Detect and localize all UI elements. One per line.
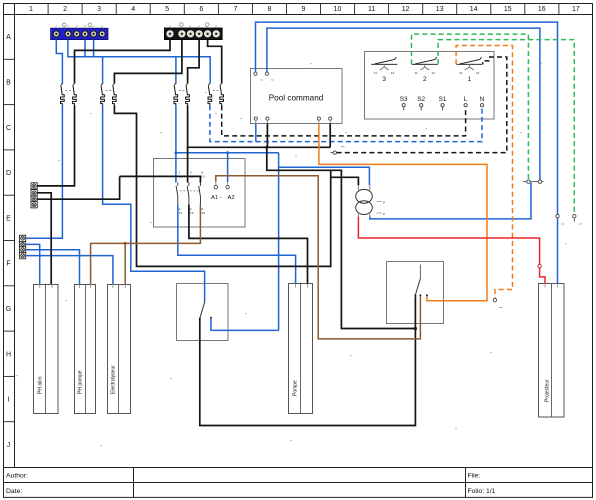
svg-text:T2: T2 xyxy=(190,211,194,215)
svg-text:14: 14 xyxy=(476,71,480,75)
svg-text:4: 4 xyxy=(131,6,135,13)
svg-text:17: 17 xyxy=(572,6,580,13)
wire net X from node to relay K2 (black) xyxy=(267,147,416,328)
svg-text:H: H xyxy=(6,351,11,358)
svg-text:J: J xyxy=(7,442,11,449)
wire branch to transformer primary left (black) xyxy=(331,177,359,185)
row letters xyxy=(3,59,14,421)
wire Pool command top2 to connector (blue) xyxy=(267,28,540,180)
svg-text:13: 13 xyxy=(436,6,444,13)
svg-text:T3: T3 xyxy=(201,211,205,215)
terminal L xyxy=(464,96,468,107)
connector orange dashed end xyxy=(493,298,502,307)
wire tee to transformer primary right (blue) xyxy=(279,167,370,185)
circuit breaker Q1 pole 1 xyxy=(61,83,65,106)
wire XB1.1 to Q1 pole1 (blue) xyxy=(56,40,62,83)
svg-text:Author:: Author: xyxy=(6,473,28,480)
contactor mechanical link xyxy=(177,190,200,192)
wire Q2 pole1 to relay K1 blade (blue) xyxy=(103,105,205,302)
connector inline on Projecteur blue xyxy=(556,214,565,224)
svg-text:E: E xyxy=(6,215,11,222)
breaker Q3 link xyxy=(179,89,185,91)
svg-text:14: 14 xyxy=(432,71,436,75)
contactor pole 3 xyxy=(199,183,201,205)
svg-text:G: G xyxy=(6,306,11,313)
junction node brown tee xyxy=(124,242,127,245)
terminal strip X2 (row F) xyxy=(20,235,26,259)
wire node to A2 and riser (blue) xyxy=(176,152,279,154)
wire Q1 pole2 to strip X1.1 (black) xyxy=(37,105,74,185)
svg-text:N: N xyxy=(480,96,485,103)
svg-text:1: 1 xyxy=(29,6,33,13)
svg-text:5: 5 xyxy=(165,6,169,13)
wire transformer secondary to connector (blue) xyxy=(370,183,531,219)
svg-text:D: D xyxy=(6,170,11,177)
circuit breaker Q2 pole 2 xyxy=(113,83,117,106)
circuit breaker Q4 pole 2 xyxy=(220,83,224,106)
breaker Q1 link xyxy=(66,89,72,91)
PH pompe box xyxy=(75,284,96,414)
connector pair at D16 xyxy=(523,180,544,183)
terminal S1 xyxy=(439,96,447,111)
XB2 mounting circle right xyxy=(205,23,209,28)
svg-text:F: F xyxy=(6,261,10,268)
svg-text:Electrolyseur: Electrolyseur xyxy=(111,365,117,394)
Electrolyseur box xyxy=(108,284,131,414)
wire relay return K1-K2 (black) xyxy=(200,296,416,425)
relay box K1 (left) xyxy=(177,284,229,341)
wire XB2.5 to Q4 pole2 (black) xyxy=(208,40,222,83)
circuit breaker Q2 pole 1 xyxy=(101,83,105,106)
svg-text:2: 2 xyxy=(423,76,427,83)
XB1 terminal ticks xyxy=(55,26,103,28)
wire contactor T1 to Pompe left (blue) xyxy=(178,205,296,284)
wire strip X2.3 to PH pompe left (blue) xyxy=(26,250,80,284)
svg-text:14: 14 xyxy=(470,6,478,13)
svg-text:S2: S2 xyxy=(417,96,425,103)
switch 3 xyxy=(371,57,397,70)
svg-text:3: 3 xyxy=(97,6,101,13)
wire Q1 pole1 to strip X2.1 (blue) xyxy=(26,105,63,238)
coil terminal A1 xyxy=(211,182,222,201)
wire red transformer secondary to Projecteur left xyxy=(358,217,545,284)
paper grid marks xyxy=(16,63,567,446)
svg-text:v: v xyxy=(383,201,385,205)
svg-text:10: 10 xyxy=(334,6,342,13)
wire XB2.2 to Q2 pole2 (black) xyxy=(114,40,181,83)
svg-text:11: 11 xyxy=(459,71,462,75)
wire strip X1.2 to PH alim right (black) xyxy=(37,193,51,284)
svg-text:9: 9 xyxy=(302,6,306,13)
wire contactor pole3 feed (black) xyxy=(120,176,201,182)
svg-text:S3: S3 xyxy=(400,96,408,103)
wire bus tap to Q3 pole1 xyxy=(175,57,177,83)
wire Pool command bottom1 to N line (blue) xyxy=(255,124,257,142)
connector inline on red xyxy=(538,264,541,267)
terminal strip X1 (rows D-E) xyxy=(31,183,37,208)
wire L dashed (black) xyxy=(222,105,466,135)
svg-text:Pool command: Pool command xyxy=(269,94,324,103)
connector black dashed start xyxy=(331,147,345,155)
wire A2 drop (blue) xyxy=(227,153,229,182)
svg-text:Folio: 1/1: Folio: 1/1 xyxy=(468,488,496,495)
svg-text:Projecteur: Projecteur xyxy=(545,379,551,402)
wire Q3 pole2 branch to Pool command blacks (black) xyxy=(187,146,331,148)
wire green dashed switch2 left to connector pair xyxy=(412,34,529,180)
svg-text:Date:: Date: xyxy=(6,488,22,495)
wire green dashed switch2 right to hanging connector xyxy=(438,40,574,215)
svg-text:PH pompe: PH pompe xyxy=(78,370,84,394)
wire XB2.1 to Q1 pole2 (black) xyxy=(75,40,171,83)
wire Q3 pole1 into contactor pole1 (blue) xyxy=(175,105,177,182)
wire Pool command top1 to Projecteur right (blue) xyxy=(256,22,558,283)
Pool command box xyxy=(251,68,343,123)
title block xyxy=(3,467,593,498)
svg-text:16: 16 xyxy=(538,6,546,13)
circuit breaker Q4 pole 1 xyxy=(208,83,212,106)
terminal block XB2 (black) xyxy=(164,28,222,40)
svg-text:A1 -: A1 - xyxy=(211,195,222,201)
switch 2 xyxy=(412,57,438,70)
svg-text:1: 1 xyxy=(468,76,472,83)
coil terminal A2 xyxy=(226,182,235,201)
svg-text:L3: L3 xyxy=(201,175,205,179)
breaker Q2 link xyxy=(106,89,112,91)
svg-text:v: v xyxy=(383,212,385,216)
wire strip X2.4 to Electrolyseur left (blue) xyxy=(26,256,113,284)
wire riser to relay K1 contact rail (blue) xyxy=(278,153,280,331)
wire orange dashed switch1 to connector xyxy=(456,46,512,299)
svg-text:2: 2 xyxy=(63,6,67,13)
contactor KM1 box xyxy=(154,159,246,228)
junction node net X xyxy=(265,146,268,149)
contactor pole 2 xyxy=(187,183,189,205)
relay K2 switch xyxy=(414,265,428,297)
wire brown A1 to relay K2 middle contact xyxy=(216,176,421,339)
wire S dashed to switch 1 (black) xyxy=(337,57,507,153)
terminal S3 xyxy=(400,96,408,111)
switch 1 xyxy=(456,57,482,70)
svg-text:L: L xyxy=(464,96,468,103)
relay K1 switch xyxy=(199,302,212,320)
svg-text:11: 11 xyxy=(368,6,375,13)
svg-text:S1: S1 xyxy=(439,96,447,103)
svg-text:PH alim: PH alim xyxy=(38,376,44,394)
wire orange Pool command to relay K2 right contact xyxy=(319,124,487,301)
XB1 mounting circle left xyxy=(62,23,66,28)
XB2 terminal ticks xyxy=(169,26,217,28)
relay box K2 (right) xyxy=(387,262,444,324)
svg-text:3: 3 xyxy=(382,76,386,83)
switch box (S3 S2 S1 L N) xyxy=(365,52,495,120)
breaker Q4 link xyxy=(213,89,219,91)
junction node relay K2 return xyxy=(414,327,417,330)
wire N dashed (blue) xyxy=(210,105,482,141)
terminal N xyxy=(480,96,485,107)
junction node A2 tap xyxy=(226,151,229,154)
wire brown tee to Electrolyseur right xyxy=(124,243,126,284)
wire strip X2.2 to PH alim left (blue) xyxy=(26,244,40,284)
svg-text:12: 12 xyxy=(402,6,410,13)
circuit breaker Q1 pole 2 xyxy=(73,83,77,106)
wire XB1.2 blue bus to Q4 pole1 xyxy=(68,40,210,83)
wire bus tap to Q2 pole1 xyxy=(102,57,104,83)
PH alim box xyxy=(34,284,59,414)
svg-text:Pompe: Pompe xyxy=(293,380,299,396)
svg-text:B: B xyxy=(6,80,11,87)
svg-text:15: 15 xyxy=(504,6,512,13)
svg-text:A: A xyxy=(6,34,11,41)
Pompe box xyxy=(289,284,313,414)
wire contactor T2 to Pompe right (black) xyxy=(189,205,308,284)
transformer T1 xyxy=(356,185,385,216)
junction node b3p1/A2 xyxy=(174,151,177,154)
wire Pool command bottom2 drop (black) xyxy=(266,124,268,148)
svg-text:I: I xyxy=(8,397,10,404)
svg-text:C: C xyxy=(6,125,11,132)
terminal block XB1 (blue) xyxy=(51,28,108,39)
circuit breaker Q3 pole 2 xyxy=(186,83,190,106)
column ruler xyxy=(48,3,559,14)
wire brown bus PH pompe / Electrolyseur to contactor T3 xyxy=(91,205,201,284)
svg-text:8: 8 xyxy=(267,6,271,13)
svg-text:T1: T1 xyxy=(179,211,183,215)
svg-text:7: 7 xyxy=(233,6,237,13)
wire strip X1.3 up to pole3 feed (black) xyxy=(37,176,119,199)
svg-text:A2: A2 xyxy=(228,195,235,201)
Projecteur box xyxy=(539,284,565,418)
connector hanging green xyxy=(573,214,582,224)
wire Pool command bottom4 drop (black) xyxy=(329,124,331,148)
XB2 mounting circle left xyxy=(180,23,184,28)
contactor pole 1 xyxy=(176,183,178,205)
wire XB1.4 stub to bus xyxy=(84,40,86,57)
circuit breaker Q3 pole 1 xyxy=(174,83,178,106)
XB1 mounting circle right xyxy=(88,23,92,28)
wire relay K1 contact to riser (blue) xyxy=(211,319,279,331)
svg-text:File:: File: xyxy=(468,473,481,480)
svg-text:14: 14 xyxy=(391,71,395,75)
svg-text:11: 11 xyxy=(374,71,377,75)
svg-text:11: 11 xyxy=(415,71,418,75)
wire XB2.4 to Q3 pole2 (black) xyxy=(188,40,200,83)
svg-text:6: 6 xyxy=(199,6,203,13)
wire Q2 pole2 to black bus riser (black) xyxy=(114,105,330,266)
terminal S2 xyxy=(417,96,425,111)
wire XB1.5 stub to bus xyxy=(93,40,95,57)
wire Q3 pole2 into contactor pole2 (black) xyxy=(187,105,189,182)
